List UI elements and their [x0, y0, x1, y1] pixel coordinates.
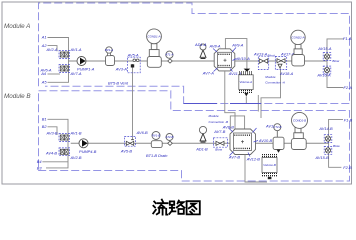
svg-text:AV1-A: AV1-A — [70, 47, 82, 52]
svg-text:B1: B1 — [42, 117, 47, 122]
svg-text:Block: Block — [268, 54, 276, 58]
svg-text:B2: B2 — [42, 124, 48, 129]
svg-text:Module A: Module A — [4, 23, 30, 30]
svg-text:Volume-B: Volume-B — [263, 163, 276, 167]
svg-text:AV10-A: AV10-A — [236, 56, 251, 61]
svg-text:RV1-B: RV1-B — [152, 134, 161, 138]
svg-text:F1-A: F1-A — [343, 36, 352, 41]
svg-text:A1: A1 — [41, 35, 47, 40]
svg-text:COND1-B: COND1-B — [293, 118, 306, 122]
svg-text:AV5-B: AV5-B — [120, 148, 132, 153]
svg-text:COND2-A: COND2-A — [291, 35, 304, 39]
svg-text:B4: B4 — [37, 159, 43, 164]
svg-text:AV13-A: AV13-A — [253, 51, 268, 56]
svg-text:PUMP1-A: PUMP1-A — [77, 67, 95, 72]
svg-text:AV1-B: AV1-B — [70, 130, 82, 135]
svg-text:AV12-B: AV12-B — [246, 156, 261, 161]
svg-text:PUMP4-B: PUMP4-B — [79, 149, 97, 154]
svg-text:AV5-A: AV5-A — [127, 52, 139, 57]
svg-text:F2-A: F2-A — [344, 85, 353, 90]
svg-text:AV16-A: AV16-A — [316, 73, 331, 78]
svg-text:AD1-B: AD1-B — [195, 147, 208, 152]
svg-text:A5: A5 — [41, 80, 48, 85]
svg-text:AV2-B: AV2-B — [70, 155, 82, 160]
svg-text:AV18-A: AV18-A — [279, 71, 294, 76]
svg-text:AV15-B: AV15-B — [315, 155, 330, 160]
svg-text:AV8-B: AV8-B — [222, 124, 234, 129]
svg-text:F2-B: F2-B — [343, 165, 352, 170]
svg-text:F1-B: F1-B — [344, 118, 353, 123]
svg-text:Connection -B: Connection -B — [209, 120, 229, 124]
svg-text:Module: Module — [209, 114, 219, 118]
svg-text:AV9-A: AV9-A — [231, 43, 243, 48]
svg-text:AV15-A: AV15-A — [317, 46, 332, 51]
svg-text:BT5-B Vent: BT5-B Vent — [108, 81, 129, 86]
svg-text:AV7-B: AV7-B — [213, 129, 225, 134]
svg-text:AV8-A: AV8-A — [209, 44, 221, 49]
svg-text:AV3-B: AV3-B — [46, 130, 58, 135]
svg-text:B3: B3 — [37, 166, 43, 171]
svg-text:Module: Module — [265, 75, 275, 79]
svg-text:Volume-A: Volume-A — [240, 80, 253, 84]
svg-text:AV2-A: AV2-A — [46, 47, 58, 52]
svg-text:AV6-B: AV6-B — [136, 130, 148, 135]
svg-text:AV4-B: AV4-B — [45, 150, 57, 155]
svg-text:AV7-A: AV7-A — [70, 71, 82, 76]
svg-text:Module B: Module B — [4, 93, 31, 100]
svg-text:CT2-B: CT2-B — [273, 125, 281, 129]
svg-text:AT1-A: AT1-A — [164, 53, 173, 57]
svg-text:Blow: Blow — [215, 147, 222, 151]
svg-text:AV10-B: AV10-B — [258, 138, 273, 143]
svg-text:AT2-B: AT2-B — [165, 135, 174, 139]
svg-text:AV6-A: AV6-A — [40, 68, 52, 73]
svg-text:AV7-B: AV7-B — [228, 154, 240, 159]
svg-text:Connection -A: Connection -A — [265, 81, 285, 85]
svg-text:BT1-B Drain: BT1-B Drain — [146, 153, 167, 158]
svg-text:Blow: Blow — [333, 144, 340, 148]
svg-text:Blow: Blow — [332, 59, 339, 63]
svg-text:RV1-A: RV1-A — [105, 48, 114, 52]
svg-text:COND1-A: COND1-A — [147, 34, 160, 38]
svg-text:AD1-A: AD1-A — [194, 42, 207, 47]
svg-text:AV7-A: AV7-A — [202, 71, 214, 76]
svg-text:AV14-B: AV14-B — [318, 126, 333, 131]
svg-text:AV3-A: AV3-A — [115, 66, 127, 71]
